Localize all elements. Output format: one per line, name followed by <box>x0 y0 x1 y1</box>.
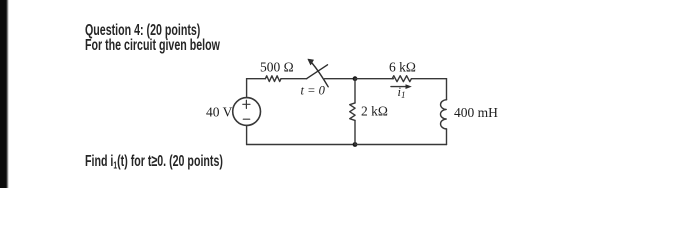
wire middle branch upper (node A to R2) <box>354 79 356 103</box>
node A junction dot <box>353 76 358 81</box>
svg-text:2 kΩ: 2 kΩ <box>361 104 388 119</box>
wire right branch lower (inductor to bottom-right corner) <box>446 129 448 145</box>
resistor R3 6 kohm <box>392 76 411 82</box>
svg-text:6 kΩ: 6 kΩ <box>389 59 416 74</box>
switch SW (opens at t=0) <box>307 59 329 87</box>
wire left branch upper (top-left corner down to source) <box>246 79 248 98</box>
wire bottom right (node B to corner) <box>355 144 447 146</box>
resistor R1 500 ohm <box>265 76 281 82</box>
svg-text:t = 0: t = 0 <box>301 84 326 98</box>
wire resistor R1 to switch <box>281 78 307 80</box>
wire right branch upper (corner to inductor) <box>446 79 448 100</box>
title line 1 <box>85 23 200 39</box>
svg-text:40 V: 40 V <box>206 105 233 120</box>
wire top-left corner to resistor R1 <box>247 78 266 80</box>
wire node A to resistor R3 <box>355 78 394 80</box>
left black scan bar <box>0 0 9 188</box>
svg-text:500 Ω: 500 Ω <box>260 60 294 75</box>
inductor L1 400 mH <box>441 100 447 129</box>
resistor R2 2 kohm (vertical) <box>350 103 355 121</box>
bottom question line <box>85 154 223 172</box>
wire bottom left (corner to node B) <box>247 144 355 146</box>
voltage source VS 40 V <box>233 98 261 126</box>
wire middle branch lower (R2 to node B) <box>354 120 356 144</box>
node B junction dot <box>353 142 358 147</box>
current arrow i1 <box>391 84 412 89</box>
wire left branch lower (source to bottom-left corner) <box>246 125 248 144</box>
wire switch to node A <box>325 78 355 80</box>
svg-text:400 mH: 400 mH <box>454 105 498 120</box>
wire resistor R3 to top-right corner <box>411 78 446 80</box>
title line 2 <box>85 38 220 54</box>
